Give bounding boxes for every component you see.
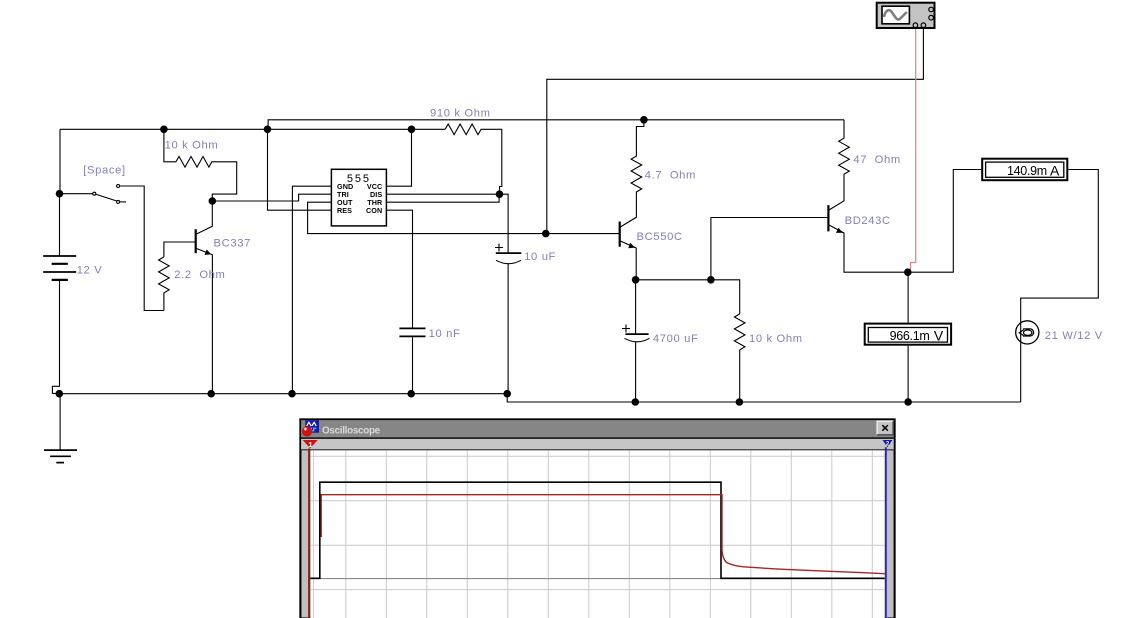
svg-text:BC550C: BC550C — [637, 231, 683, 243]
svg-text:47 Ohm: 47 Ohm — [853, 154, 900, 166]
svg-text:4.7 Ohm: 4.7 Ohm — [645, 169, 696, 181]
svg-text:10 nF: 10 nF — [429, 328, 461, 340]
svg-text:V: V — [934, 327, 944, 343]
svg-text:4700 uF: 4700 uF — [653, 333, 699, 345]
svg-text:Oscilloscope: Oscilloscope — [322, 425, 381, 436]
svg-text:BC337: BC337 — [214, 237, 251, 249]
svg-text:10 k Ohm: 10 k Ohm — [749, 333, 803, 345]
svg-text:RES: RES — [337, 206, 352, 215]
svg-text:21 W/12 V: 21 W/12 V — [1045, 330, 1103, 342]
svg-text:CON: CON — [366, 206, 382, 215]
svg-text:1: 1 — [308, 440, 312, 449]
svg-text:10 uF: 10 uF — [524, 251, 556, 263]
svg-text:10 k Ohm: 10 k Ohm — [165, 140, 219, 152]
svg-text:A: A — [1050, 162, 1060, 178]
svg-text:12 V: 12 V — [77, 264, 103, 276]
svg-text:966.1m: 966.1m — [890, 329, 930, 343]
svg-text:910 k Ohm: 910 k Ohm — [430, 108, 491, 120]
svg-text:2.2 Ohm: 2.2 Ohm — [174, 269, 225, 281]
svg-text:[Space]: [Space] — [83, 165, 126, 177]
svg-text:140.9m: 140.9m — [1007, 164, 1047, 178]
svg-text:BD243C: BD243C — [845, 215, 891, 227]
